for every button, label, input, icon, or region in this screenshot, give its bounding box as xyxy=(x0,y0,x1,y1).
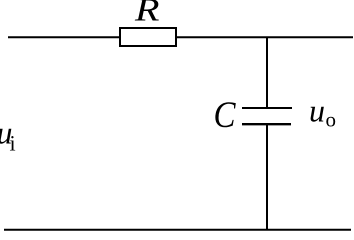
wire vertical lower xyxy=(266,124,268,230)
wire vertical upper xyxy=(266,37,268,108)
wire bottom xyxy=(4,229,351,231)
wire top-left xyxy=(8,36,120,38)
svg-text:R: R xyxy=(134,0,160,29)
capacitor C1 bottom plate xyxy=(242,123,291,125)
svg-text:ui: ui xyxy=(0,115,16,156)
svg-text:uo: uo xyxy=(309,93,336,132)
resistor R1 xyxy=(120,28,176,46)
svg-text:C: C xyxy=(214,95,237,136)
wire top-right xyxy=(176,36,353,38)
capacitor C1 top plate xyxy=(242,107,292,109)
